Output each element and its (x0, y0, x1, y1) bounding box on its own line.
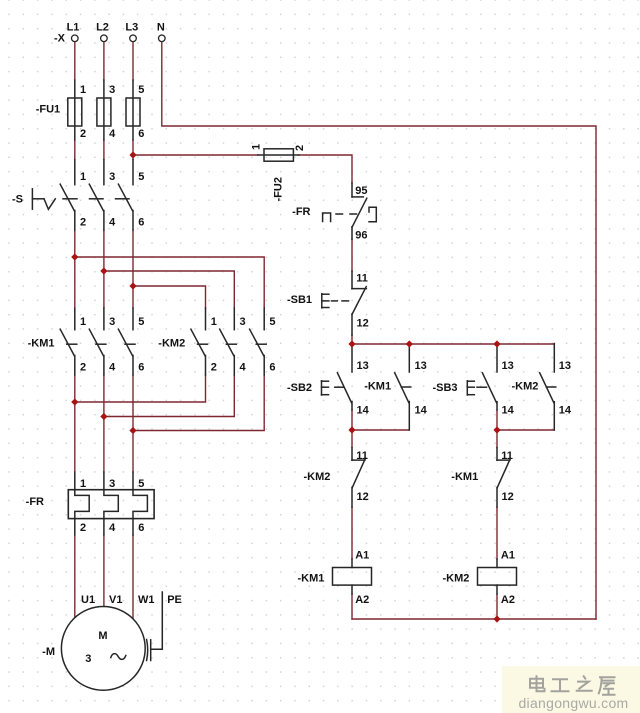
motor sine symbol (111, 654, 126, 660)
thermal relay FR heater element 1-2 (75, 472, 89, 535)
svg-text:1: 1 (80, 84, 86, 96)
push button SB1 NC 11-12 (322, 271, 367, 335)
svg-text:U1: U1 (81, 594, 95, 606)
wire fuse FU1-6 to switch S pole 5 (node to FU2) (132, 140, 134, 160)
junction rail node at KM1 aux (406, 340, 413, 347)
svg-text:M: M (98, 630, 107, 642)
svg-text:-FR: -FR (292, 206, 310, 218)
junction rail node at SB2 (348, 340, 355, 347)
svg-text:1: 1 (80, 316, 86, 328)
wire rail node 13 across branches (352, 343, 554, 345)
wire contactor KM1-6 to thermal relay FR-5 (132, 375, 134, 472)
svg-text:-X: -X (54, 32, 66, 44)
svg-text:-FU1: -FU1 (36, 103, 60, 115)
wire L3 terminal to fuse FU1-5 (132, 42, 134, 80)
wire fuse FU1-4 to switch S pole 3 (103, 140, 105, 160)
svg-text:1: 1 (251, 144, 263, 150)
svg-text:-KM2: -KM2 (512, 380, 539, 392)
wire switch S-6 to contactor KM1-5 (132, 230, 134, 308)
fuse FU1 pole 3-4 (97, 80, 111, 140)
fuse FU2 (258, 149, 299, 161)
svg-text:4: 4 (109, 217, 116, 229)
junction node W phase (129, 427, 136, 434)
svg-text:2: 2 (294, 145, 306, 151)
interlock contact KM2 NC 11-12 (352, 448, 365, 508)
svg-text:1: 1 (80, 171, 86, 183)
svg-text:14: 14 (559, 405, 572, 417)
svg-text:96: 96 (355, 229, 367, 241)
pin numbers 14 row (357, 405, 572, 417)
svg-text:-KM1: -KM1 (451, 471, 478, 483)
wire node L1 branch to contactor KM2-5 (75, 257, 264, 308)
switch S actuator and linkage (32, 189, 129, 210)
svg-text:-KM2: -KM2 (304, 471, 331, 483)
svg-text:3: 3 (109, 478, 115, 490)
wire contactor KM2-2 to node U phase (75, 375, 206, 402)
svg-text:3: 3 (109, 316, 115, 328)
svg-text:4: 4 (109, 361, 116, 373)
svg-text:13: 13 (357, 360, 369, 372)
svg-text:5: 5 (138, 478, 144, 490)
coil KM2 A1-A2 (478, 559, 517, 594)
svg-text:13: 13 (559, 360, 571, 372)
contactor KM1 aux NO 13-14 (395, 346, 411, 430)
svg-text:11: 11 (501, 450, 513, 462)
svg-text:4: 4 (240, 361, 247, 373)
svg-text:6: 6 (138, 217, 144, 229)
svg-text:-KM1: -KM1 (298, 572, 325, 584)
thermal relay FR heater element 3-4 (104, 472, 118, 535)
pin numbers FR bottom (80, 522, 144, 534)
contactor KM2 main pole 1-2 (191, 308, 208, 375)
contactor KM1 main pole 5-6 (118, 308, 135, 375)
svg-text:W1: W1 (138, 594, 155, 606)
pin numbers A2 (355, 594, 515, 606)
svg-text:14: 14 (357, 405, 370, 417)
svg-text:N: N (157, 21, 165, 33)
wire contactor KM1-4 to thermal relay FR-3 (103, 375, 105, 472)
wire L3 node to fuse FU2-1 (133, 154, 258, 156)
coil KM1 A1-A2 (333, 559, 372, 594)
svg-text:5: 5 (138, 171, 144, 183)
wire SB3-14 to node B (496, 410, 498, 430)
svg-text:-SB3: -SB3 (432, 382, 457, 394)
svg-text:5: 5 (269, 316, 275, 328)
svg-text:1: 1 (211, 316, 217, 328)
svg-text:-KM2: -KM2 (158, 338, 185, 350)
svg-text:3: 3 (109, 84, 115, 96)
svg-text:-SB1: -SB1 (287, 294, 312, 306)
svg-text:4: 4 (109, 128, 116, 140)
svg-text:-FR: -FR (26, 496, 44, 508)
thermal relay FR NC contact 95-96 with test dashes (323, 183, 377, 239)
svg-text:A1: A1 (355, 549, 369, 561)
svg-text:-KM1: -KM1 (28, 338, 55, 350)
svg-text:A1: A1 (501, 549, 515, 561)
svg-text:V1: V1 (109, 594, 122, 606)
push button SB2 NO 13-14 (322, 346, 353, 410)
svg-text:11: 11 (356, 273, 368, 285)
wire contactor KM2-4 to node V phase (104, 375, 234, 417)
svg-text:11: 11 (356, 450, 368, 462)
svg-text:L3: L3 (125, 21, 138, 33)
pin numbers switch S bottom (80, 217, 144, 229)
svg-text:-M: -M (42, 646, 55, 658)
wire L2 terminal to fuse FU1-3 (103, 42, 105, 80)
wire node A to interlock KM2-11 (351, 430, 353, 448)
interlock contact KM1 NC 11-12 (497, 448, 510, 508)
contactor KM1 main pole 3-4 (89, 308, 106, 375)
junction rail node at SB3 (493, 340, 500, 347)
svg-text:2: 2 (80, 128, 86, 140)
wire node L3 branch to contactor KM2-1 (133, 286, 206, 308)
pin numbers switch S top (80, 171, 144, 183)
svg-text:1: 1 (80, 478, 86, 490)
contactor KM2 main pole 5-6 (250, 308, 267, 375)
pin numbers KM1 main top (80, 316, 144, 328)
wire switch S-2 to contactor KM1-1 (74, 230, 76, 308)
svg-text:95: 95 (355, 185, 367, 197)
fuse FU1 pole 1-2 (68, 80, 82, 140)
svg-text:PE: PE (167, 594, 182, 606)
thermal relay FR heater element 5-6 (133, 472, 147, 535)
svg-text:12: 12 (357, 317, 369, 329)
terminal -X L3 (130, 35, 137, 42)
svg-text:3: 3 (85, 653, 91, 665)
contactor KM2 main pole 3-4 (220, 308, 237, 375)
svg-text:6: 6 (138, 128, 144, 140)
junction node B (493, 426, 500, 433)
fuse FU1 pole 5-6 (126, 80, 140, 140)
wire fuse FU2-2 to FR contact 95 (299, 155, 352, 183)
junction node V phase (100, 413, 107, 420)
junction node L1 branch (71, 253, 78, 260)
wire coil KM1 A2 to bottom rail (351, 594, 353, 619)
wire interlock KM1-12 to coil KM2 A1 (496, 507, 498, 559)
motor PE lead and frame connection (147, 592, 163, 661)
pin numbers fuse FU1 bottom (80, 128, 144, 140)
svg-text:2: 2 (211, 361, 217, 373)
wire KM1 aux 14 to node A (352, 429, 409, 431)
wire switch S-4 to contactor KM1-3 (103, 230, 105, 308)
svg-text:4: 4 (109, 522, 116, 534)
junction node bottom rail at KM2 coil (493, 615, 500, 622)
svg-text:6: 6 (138, 522, 144, 534)
motor M circle (61, 607, 145, 691)
svg-text:-KM1: -KM1 (364, 380, 391, 392)
junction node L3 branch (129, 282, 136, 289)
wire node B to interlock KM1-11 (496, 430, 498, 448)
svg-text:13: 13 (415, 360, 427, 372)
svg-text:5: 5 (138, 84, 144, 96)
pin numbers interlock 12 (357, 491, 514, 503)
wire N terminal down, right and down the right edge (162, 42, 596, 619)
contactor KM1 main pole 1-2 (60, 308, 77, 375)
wire interlock KM2-12 to coil KM1 A1 (351, 507, 353, 559)
svg-text:-FU2: -FU2 (273, 177, 285, 201)
svg-text:A2: A2 (355, 594, 369, 606)
svg-text:12: 12 (357, 491, 369, 503)
svg-text:-S: -S (12, 193, 23, 205)
motor terminal labels U1 V1 W1 PE (81, 594, 182, 606)
pin numbers interlock 11 (356, 450, 513, 462)
pin numbers 13 row (357, 360, 572, 372)
switch S pole 1-2 (60, 160, 75, 231)
svg-text:6: 6 (269, 361, 275, 373)
pin numbers KM2 main bottom (211, 361, 276, 373)
contactor KM2 aux NO 13-14 (540, 344, 556, 431)
junction node A (348, 426, 355, 433)
switch S pole 5-6 (118, 160, 133, 231)
wire coil KM2 A2 to bottom rail (496, 594, 498, 619)
wire bottom rail to N (352, 618, 596, 620)
pin numbers KM1 main bottom (80, 361, 144, 373)
wire L1 terminal to fuse FU1-1 (74, 42, 76, 80)
svg-text:L1: L1 (67, 21, 80, 33)
pin numbers FR top (80, 478, 144, 490)
svg-text:-SB2: -SB2 (287, 382, 312, 394)
pin numbers A1 (355, 549, 515, 561)
wire thermal relay FR-2 to motor U1 (74, 535, 76, 619)
svg-text:14: 14 (415, 405, 428, 417)
wire thermal relay FR-6 to motor W1 (132, 535, 134, 620)
svg-text:diangongwu.com: diangongwu.com (518, 695, 628, 711)
push button SB3 NO 13-14 (467, 346, 497, 410)
svg-text:A2: A2 (501, 594, 515, 606)
wire contactor KM1-2 to thermal relay FR-1 (74, 375, 76, 472)
wire contactor KM2-6 to node W phase (133, 375, 264, 431)
svg-text:-KM2: -KM2 (443, 572, 470, 584)
svg-text:3: 3 (109, 171, 115, 183)
svg-text:6: 6 (138, 361, 144, 373)
svg-text:12: 12 (502, 491, 514, 503)
wire SB2-14 to node A (351, 410, 353, 430)
junction node L3 to FU2 (129, 151, 136, 158)
svg-text:3: 3 (240, 316, 246, 328)
switch S pole 3-4 (89, 160, 104, 231)
terminal -X L2 (101, 35, 108, 42)
junction node L2 branch (100, 267, 107, 274)
pin numbers fuse FU1 top (80, 84, 144, 96)
svg-text:2: 2 (80, 361, 86, 373)
wire SB1-12 to node 13 rail (351, 335, 353, 344)
svg-text:2: 2 (80, 522, 86, 534)
svg-text:14: 14 (502, 405, 515, 417)
svg-text:2: 2 (80, 217, 86, 229)
junction node U phase (71, 398, 78, 405)
svg-text:L2: L2 (96, 21, 109, 33)
wire node L2 branch to contactor KM2-3 (104, 271, 234, 308)
wire fuse FU1-2 to switch S pole 1 (74, 140, 76, 160)
wire thermal relay FR-4 to motor V1 (103, 535, 105, 608)
thermal relay FR heater box (68, 490, 154, 519)
terminal -X L1 (72, 35, 79, 42)
svg-text:13: 13 (502, 360, 514, 372)
svg-text:5: 5 (138, 316, 144, 328)
pin numbers KM2 main top (211, 316, 276, 328)
terminal -X N (159, 35, 166, 42)
wire KM2 aux 14 to node B (497, 429, 554, 431)
wire FR contact 96 to SB1-11 (351, 239, 353, 271)
